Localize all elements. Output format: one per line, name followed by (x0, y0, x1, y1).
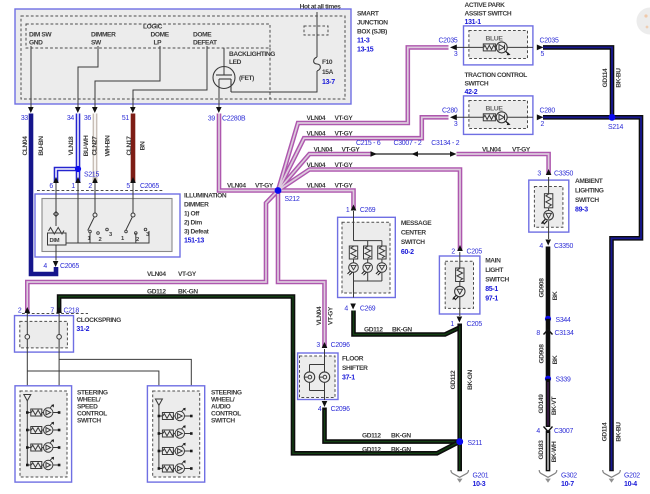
C205-2 arrow up (457, 245, 463, 251)
ground G202 (603, 470, 621, 477)
svg-text:C3350: C3350 (554, 171, 573, 178)
svg-text:10-3: 10-3 (473, 481, 486, 488)
svg-text:ASSIST SWITCH: ASSIST SWITCH (465, 11, 512, 18)
svg-text:STEERING: STEERING (77, 390, 108, 397)
svg-text:S339: S339 (556, 377, 572, 384)
wire VLN04 S212 to clockspring C218-2 (27, 191, 278, 313)
svg-text:C2065: C2065 (140, 183, 159, 190)
svg-text:GD112: GD112 (362, 433, 381, 440)
svg-text:C2065: C2065 (60, 263, 79, 270)
diode symbol (speed switch) (24, 395, 31, 401)
svg-text:11-3: 11-3 (357, 38, 370, 45)
C2096-3 arrow up (322, 342, 328, 348)
svg-text:VT-GY: VT-GY (328, 306, 335, 325)
svg-text:VT-GY: VT-GY (178, 271, 197, 278)
svg-text:GD908: GD908 (539, 344, 546, 364)
svg-text:LED: LED (229, 59, 242, 66)
svg-text:GD112: GD112 (362, 446, 381, 453)
wire GD114 BK-BU C2035-5 to S214 (543, 47, 612, 117)
svg-text:VLN04: VLN04 (307, 162, 326, 169)
svg-text:MESSAGE: MESSAGE (401, 220, 432, 227)
svg-text:SHIFTER: SHIFTER (342, 365, 368, 372)
dimmer bottom bus (66, 231, 149, 243)
svg-text:C280: C280 (540, 107, 556, 114)
SJB connector small dashed box (304, 26, 328, 35)
svg-text:5: 5 (126, 183, 130, 190)
svg-text:SWITCH: SWITCH (575, 197, 599, 204)
wire VLN04 C3134 to C3350-3 (457, 154, 549, 175)
svg-text:S214: S214 (608, 124, 624, 131)
svg-text:4: 4 (318, 406, 322, 413)
traction control switch U2 (464, 96, 533, 134)
svg-text:1: 1 (450, 321, 454, 328)
svg-text:DIMMER: DIMMER (184, 202, 209, 209)
switch SW2 (off/dim/defeat) (131, 213, 135, 217)
svg-text:BK-GN: BK-GN (392, 327, 412, 334)
resistor (ambient) (544, 194, 552, 208)
ambient internal wire (548, 177, 550, 239)
svg-text:VT-GY: VT-GY (335, 162, 354, 169)
SJB compartment divider dashed (269, 48, 271, 99)
wire dimmer sw internal (78, 46, 98, 107)
lamp (floor shifter left) (304, 372, 314, 382)
wire CLN27 WH-BN pin36 to C2065-2 (93, 114, 98, 183)
C2035-5 arrow right (537, 45, 544, 51)
svg-text:4: 4 (536, 428, 540, 435)
lamp (message 3) (377, 263, 387, 273)
lamp (ambient) (544, 211, 554, 221)
svg-text:C3007: C3007 (554, 428, 573, 435)
svg-text:2: 2 (99, 237, 102, 243)
svg-text:DIMMER: DIMMER (91, 32, 116, 39)
svg-text:BU-BN: BU-BN (38, 136, 45, 156)
wire CLN04 BU-BN pin33 to C2065-4 (31, 114, 56, 275)
resistor (active park) (483, 44, 495, 51)
active park internal wire (455, 46, 533, 48)
wire GD112 BK-GN C269-4 to main light wire (354, 311, 460, 335)
svg-text:13-7: 13-7 (322, 79, 335, 86)
svg-text:3: 3 (537, 171, 541, 178)
svg-text:SMART: SMART (357, 11, 379, 18)
wire GD114 BK-BU C280-2 to S214 to G202 (543, 117, 641, 471)
dimmer wiper diamond (54, 212, 59, 217)
svg-text:ACTIVE PARK: ACTIVE PARK (465, 2, 506, 9)
wire clockspring-2 branch to audio switch diode (27, 371, 159, 399)
illumination dimmer outer box (35, 194, 180, 257)
svg-text:CONTROL: CONTROL (77, 411, 107, 418)
svg-text:4: 4 (539, 243, 543, 250)
inline connector C3007-4 chevron (544, 427, 553, 432)
inline connector C3007-2 arrow (412, 151, 419, 156)
svg-text:SWITCH: SWITCH (77, 418, 101, 425)
inline connector C3134-2 arrow (450, 151, 457, 156)
svg-text:VLN18: VLN18 (68, 136, 75, 155)
svg-text:C2035: C2035 (438, 38, 457, 45)
svg-text:BK: BK (552, 291, 559, 300)
svg-text:VLN04: VLN04 (307, 115, 326, 122)
inline connector C215-6 arrow (371, 151, 378, 156)
switch SW1 (off/dim/defeat) (93, 213, 97, 217)
splice S215 branch wire (56, 169, 78, 183)
C205-1 arrow down (457, 317, 463, 323)
svg-text:85-1: 85-1 (485, 286, 498, 293)
steering wheel speed control switch U8 (15, 386, 72, 482)
svg-text:BK-VT: BK-VT (551, 397, 558, 416)
svg-text:C3350: C3350 (554, 243, 573, 250)
svg-text:97-1: 97-1 (485, 296, 498, 303)
active park assist switch U1 (464, 26, 533, 65)
svg-text:AUDIO: AUDIO (211, 404, 231, 411)
svg-text:DOME: DOME (193, 32, 212, 39)
svg-text:4: 4 (43, 263, 47, 270)
svg-text:33: 33 (21, 115, 29, 122)
lamp (message 1) (349, 263, 359, 273)
svg-text:VT-GY: VT-GY (512, 146, 531, 153)
svg-text:51: 51 (122, 115, 130, 122)
svg-text:LP: LP (154, 40, 163, 47)
resistor+lamp row 2 (speed switch) (27, 423, 59, 434)
svg-text:C2280B: C2280B (222, 116, 246, 123)
wire link C215-6 to C3134-2 (thin) (372, 153, 452, 155)
svg-text:GD112: GD112 (450, 370, 457, 389)
svg-text:VLN04: VLN04 (307, 183, 326, 190)
svg-text:C3134: C3134 (555, 330, 574, 337)
C2065 connector dashed line (37, 190, 163, 192)
watermark circle (decorative) (637, 8, 650, 35)
wire VLN04 VT-GY C2280B to S212 (219, 114, 276, 191)
diode symbol (audio switch) (155, 399, 162, 405)
svg-text:WH-BN: WH-BN (105, 135, 112, 156)
svg-text:BK-BU: BK-BU (616, 68, 623, 88)
svg-text:VT-GY: VT-GY (342, 146, 361, 153)
svg-text:GD149: GD149 (538, 394, 545, 414)
C280-2 arrow right (537, 114, 544, 120)
audio switch left bus (158, 405, 160, 469)
svg-text:SW: SW (91, 40, 102, 47)
svg-text:5: 5 (541, 51, 545, 58)
svg-text:34: 34 (67, 115, 75, 122)
svg-text:39: 39 (208, 116, 216, 123)
svg-text:31-2: 31-2 (76, 326, 89, 333)
svg-text:2: 2 (541, 121, 545, 128)
splice S211 (456, 438, 463, 445)
svg-text:C269: C269 (360, 306, 376, 313)
svg-text:GD114: GD114 (602, 422, 609, 441)
svg-text:WHEEL/: WHEEL/ (211, 397, 235, 404)
message center switch U4 (338, 217, 396, 297)
resistor+lamp row 1 (speed switch) (27, 406, 59, 417)
wire VLN04 to C280-3 (fan 2) (278, 117, 449, 190)
svg-text:89-3: 89-3 (575, 207, 588, 214)
C2065-4 arrow down (53, 261, 59, 267)
steering wheel audio control switch U9 (147, 386, 204, 482)
svg-text:BACKLIGHTING: BACKLIGHTING (229, 51, 275, 58)
wire VLN04 to C215-6 (fan 3) (278, 154, 372, 191)
wire dim sw gnd internal (30, 46, 32, 107)
svg-text:BK-GN: BK-GN (467, 370, 474, 390)
C2035-3 arrow left (450, 45, 457, 51)
svg-text:VLN04: VLN04 (482, 146, 501, 153)
resistor+lamp row 4 (audio switch) (159, 462, 191, 473)
resistor (traction) (483, 114, 495, 121)
svg-text:DIM: DIM (50, 238, 60, 244)
inline connector C3134-8 chevron (544, 330, 553, 335)
svg-text:S211: S211 (468, 440, 483, 447)
C3350-3 arrow up (546, 169, 552, 175)
svg-text:SWITCH: SWITCH (401, 239, 425, 246)
wire GD112 BK-GN C2096-4 to S211 (325, 408, 460, 442)
svg-text:S215: S215 (84, 172, 100, 179)
svg-text:AMBIENT: AMBIENT (575, 178, 603, 185)
lamp (main light) (455, 286, 465, 296)
svg-text:C269: C269 (360, 207, 376, 214)
splice S344 (545, 316, 551, 322)
svg-text:DEFEAT: DEFEAT (193, 40, 217, 47)
resistor (message 1) (349, 246, 357, 259)
wire CLN17 BN pin51 to C2065-5 (131, 114, 136, 183)
splice S215 (75, 166, 81, 172)
C2065 pin arrows up (53, 177, 136, 183)
wire VLN04 to C2035-3 (fan 1) (278, 47, 449, 190)
svg-text:2) Dim: 2) Dim (184, 220, 202, 227)
rheostat DIM (49, 228, 65, 235)
svg-text:2: 2 (18, 307, 22, 314)
svg-text:DIM SW: DIM SW (29, 32, 52, 39)
lamp (floor shifter right) (319, 372, 329, 382)
svg-text:CENTER: CENTER (401, 230, 426, 237)
svg-text:BK-GN: BK-GN (178, 289, 198, 296)
floor shifter U6 (298, 353, 338, 400)
svg-text:CONTROL: CONTROL (211, 411, 241, 418)
svg-text:DOME: DOME (151, 32, 170, 39)
svg-text:6: 6 (49, 183, 53, 190)
svg-text:BOX (SJB): BOX (SJB) (357, 29, 387, 36)
svg-text:GD112: GD112 (147, 289, 166, 296)
svg-text:3) Defeat: 3) Defeat (184, 229, 210, 236)
svg-text:60-2: 60-2 (401, 249, 414, 256)
svg-text:C205: C205 (467, 249, 483, 256)
resistor (message 2) (364, 246, 372, 259)
resistor (message 3) (378, 246, 386, 259)
resistor+lamp row 4 (speed switch) (27, 458, 59, 469)
traction internal wire (455, 116, 533, 118)
wire hot feed through fuse (231, 12, 317, 92)
svg-text:BK-BU: BK-BU (616, 422, 623, 442)
SJB inner dashed border (21, 16, 345, 99)
ambient lighting switch U3 (529, 180, 569, 232)
svg-text:CLN17: CLN17 (126, 136, 133, 156)
C218 connector dashed line (22, 313, 88, 315)
svg-text:2: 2 (136, 237, 139, 243)
SJB pin arrows (28, 107, 222, 113)
svg-text:C2096: C2096 (331, 406, 350, 413)
svg-text:JUNCTION: JUNCTION (357, 20, 388, 27)
svg-text:S344: S344 (556, 317, 572, 324)
lamp (message 2) (363, 263, 373, 273)
svg-text:GD908: GD908 (539, 278, 546, 298)
svg-text:VLN04: VLN04 (314, 146, 333, 153)
splice S212 (275, 187, 282, 194)
svg-text:VT-GY: VT-GY (335, 115, 354, 122)
svg-text:FLOOR: FLOOR (342, 356, 364, 363)
wire VLN04 to C205-2 (fan 4) (278, 170, 460, 251)
svg-text:GD114: GD114 (602, 68, 609, 87)
transistor Q1 FET backlighting driver (213, 48, 235, 107)
dimmer C2065-4 exit wire (55, 245, 57, 261)
resistor+lamp row 3 (audio switch) (159, 444, 191, 455)
svg-text:ILLUMINATION: ILLUMINATION (184, 193, 227, 200)
C269-1 arrow up (351, 205, 357, 211)
main light switch U5 (439, 256, 480, 314)
svg-text:LOGIC: LOGIC (143, 24, 163, 31)
C218-2 arrow up (24, 307, 30, 313)
svg-text:S212: S212 (285, 196, 301, 203)
svg-text:LIGHTING: LIGHTING (575, 188, 604, 195)
wire dome defeat internal (133, 46, 207, 107)
svg-text:3: 3 (454, 121, 458, 128)
svg-text:GD183: GD183 (538, 440, 545, 460)
svg-text:VLN04: VLN04 (316, 306, 323, 325)
svg-text:3: 3 (454, 51, 458, 58)
svg-text:C3134 - 2: C3134 - 2 (431, 140, 459, 147)
clockspring internal wires (26, 313, 28, 393)
svg-text:BN: BN (140, 141, 147, 150)
wire GD908 BK C3350-4 to S344 (546, 247, 551, 319)
svg-text:37-1: 37-1 (342, 375, 355, 382)
wire GD183 BK-WH C3007 to G302 (546, 431, 551, 472)
C280-3 arrow left (450, 114, 457, 120)
svg-text:131-1: 131-1 (465, 19, 482, 26)
svg-text:C2096: C2096 (331, 342, 350, 349)
fuse F10 (314, 57, 321, 71)
clockspring U7 (15, 316, 74, 353)
svg-text:BK-GN: BK-GN (391, 433, 411, 440)
svg-text:15A: 15A (322, 69, 334, 76)
wire clockspring-7 to audio switch right bus (59, 359, 191, 469)
svg-text:G302: G302 (561, 473, 577, 480)
resistor+lamp row 3 (speed switch) (27, 441, 59, 452)
svg-text:BK-WH: BK-WH (551, 441, 558, 462)
svg-text:8: 8 (536, 330, 540, 337)
wire GD112 BK-GN C218-7 to S211 (59, 297, 460, 454)
svg-text:VT-GY: VT-GY (255, 183, 274, 190)
svg-text:3: 3 (316, 342, 320, 349)
svg-text:2: 2 (451, 249, 455, 256)
svg-text:10-7: 10-7 (561, 481, 574, 488)
C218-7 arrow up (56, 307, 62, 313)
svg-text:SPEED: SPEED (77, 404, 98, 411)
svg-text:Hot at all times: Hot at all times (300, 4, 342, 11)
svg-text:36: 36 (84, 115, 92, 122)
ground G201 (451, 470, 469, 477)
svg-text:G201: G201 (473, 473, 489, 480)
splice S339 (545, 376, 551, 382)
svg-text:(FET): (FET) (239, 75, 254, 82)
svg-text:2: 2 (88, 183, 92, 190)
message center internal wiring (354, 211, 382, 298)
svg-text:1) Off: 1) Off (184, 211, 200, 218)
lamp (active park) (496, 42, 507, 53)
svg-text:TRACTION CONTROL: TRACTION CONTROL (465, 72, 528, 79)
svg-text:10-4: 10-4 (624, 481, 637, 488)
svg-text:C2035: C2035 (540, 38, 559, 45)
C269-4 arrow down (350, 304, 356, 310)
svg-text:MAIN: MAIN (485, 258, 501, 265)
wire logic dome lp internal (95, 46, 160, 107)
wire VLN18 BU-WH pin34 to S215 (76, 114, 81, 183)
svg-text:VLN04: VLN04 (147, 271, 166, 278)
svg-text:BK-GN: BK-GN (391, 446, 411, 453)
splice S214 (609, 114, 616, 121)
svg-text:CLN27: CLN27 (92, 136, 99, 156)
clockspring contact ring right (57, 335, 62, 340)
svg-text:WHEEL/: WHEEL/ (77, 397, 101, 404)
svg-text:151-13: 151-13 (184, 238, 204, 245)
C3350-4 arrow down (545, 240, 551, 246)
floor shifter internal wiring (310, 349, 325, 400)
svg-text:BU-WH: BU-WH (83, 135, 90, 156)
dimmer pin stub wires (56, 183, 133, 243)
svg-text:C205: C205 (467, 321, 483, 328)
svg-text:SWITCH: SWITCH (211, 418, 235, 425)
wire GD908 BK S344 to S339 (546, 319, 551, 379)
svg-text:GD112: GD112 (364, 327, 383, 334)
speed switch left bus (26, 401, 28, 465)
svg-text:C3007 - 2: C3007 - 2 (394, 140, 422, 147)
wire GD112 BK-GN C205-1 to S211 to G201 (457, 324, 462, 472)
ground G302 (539, 470, 557, 477)
illumination dimmer inner box (42, 199, 172, 252)
resistor (main light) (456, 268, 464, 282)
svg-text:F10: F10 (322, 59, 333, 66)
svg-text:VLN04: VLN04 (227, 183, 246, 190)
clockspring contact ring left (25, 335, 30, 340)
main light internal wire (459, 252, 461, 316)
svg-text:CLOCKSPRING: CLOCKSPRING (76, 317, 121, 324)
svg-text:BK: BK (552, 355, 559, 364)
svg-text:C280: C280 (442, 107, 458, 114)
svg-text:13-15: 13-15 (357, 47, 374, 54)
SJB label compartment dashed box (26, 24, 270, 48)
svg-text:LIGHT: LIGHT (485, 267, 503, 274)
resistor+lamp row 2 (audio switch) (159, 427, 191, 438)
svg-text:CLN04: CLN04 (22, 136, 29, 156)
svg-text:1: 1 (71, 183, 75, 190)
svg-text:SWITCH: SWITCH (465, 81, 489, 88)
svg-text:VT-GY: VT-GY (335, 183, 354, 190)
lamp (traction) (496, 112, 507, 123)
svg-text:SWITCH: SWITCH (485, 277, 509, 284)
wire VLN04 to C269-1 (fan 5) (278, 191, 354, 211)
svg-text:STEERING: STEERING (211, 390, 242, 397)
svg-text:VLN04: VLN04 (307, 131, 326, 138)
svg-text:GND: GND (29, 40, 43, 47)
splice S211 dot overlay (456, 438, 463, 445)
resistor+lamp row 1 (audio switch) (159, 409, 191, 420)
wire GD149 BK-VT S339 to C3007 (546, 379, 551, 427)
svg-text:G202: G202 (624, 473, 640, 480)
svg-text:1: 1 (346, 207, 350, 214)
svg-text:42-2: 42-2 (465, 89, 478, 96)
smart junction box (SJB) outer box (15, 9, 351, 104)
C2096-4 arrow down (322, 401, 328, 407)
svg-text:C215 - 6: C215 - 6 (356, 140, 381, 147)
svg-text:4: 4 (344, 306, 348, 313)
wire VLN04 S212 to floor shifter C2096-3 (278, 191, 325, 348)
svg-text:VT-GY: VT-GY (335, 131, 354, 138)
